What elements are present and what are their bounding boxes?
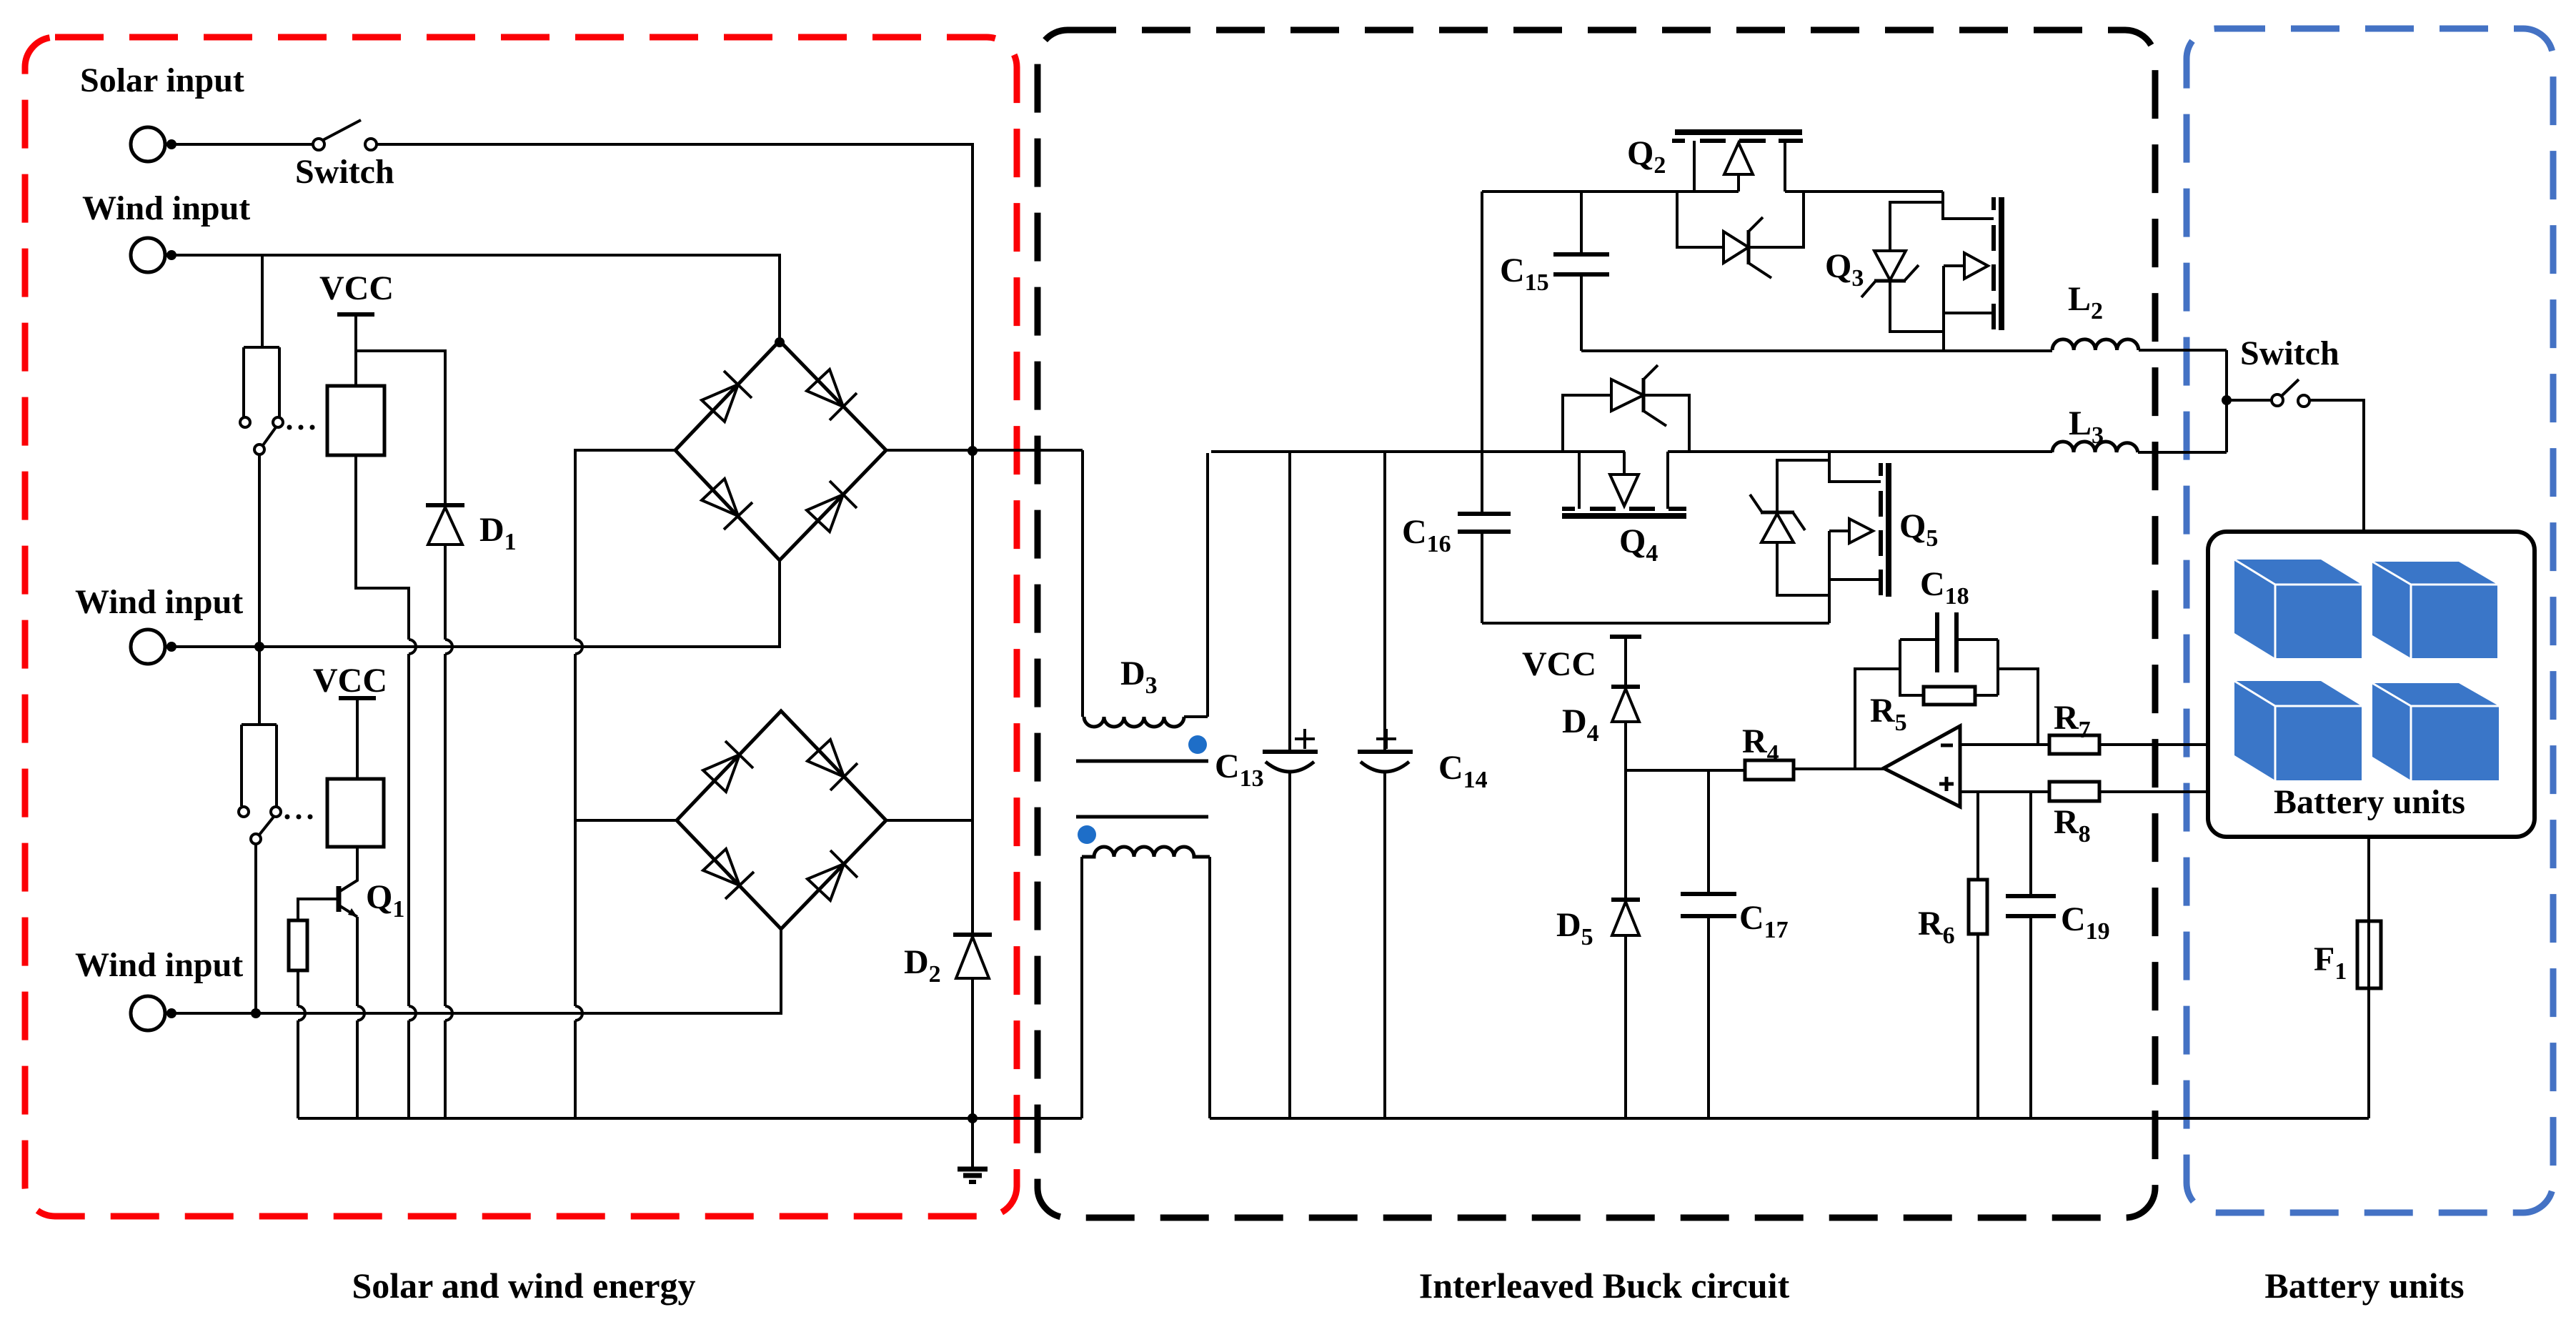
svg-text:Interleaved Buck circuit: Interleaved Buck circuit <box>1419 1266 1790 1306</box>
wire negative-rail branch to bridge2 left <box>575 819 677 822</box>
svg-text:Battery units: Battery units <box>2264 1266 2464 1306</box>
node: solar/bridge1 output junction <box>968 446 978 456</box>
resistor R5 <box>1900 640 1924 695</box>
section box: Interleaved Buck circuit (black dashed) <box>1038 30 2155 1218</box>
transformer core <box>1076 760 1208 763</box>
wire C15 bottom / Q3 source to L2 <box>1581 349 2052 352</box>
diode bridge 2 <box>677 711 886 929</box>
wire bridge1 left to negative rail (hops wind2, wind3) <box>575 450 675 1118</box>
battery cube 1 <box>2234 560 2362 658</box>
polarity dot (secondary) <box>1078 825 1096 844</box>
ground <box>971 1118 974 1168</box>
negative rail (left section) <box>298 1117 1082 1120</box>
section box: Solar and wind energy (red dashed) <box>25 37 1017 1216</box>
terminal: solar input <box>131 127 165 161</box>
polarity dot (primary) <box>1188 735 1207 754</box>
svg-text:Wind input: Wind input <box>82 189 250 227</box>
changeover switch K2 <box>242 723 277 726</box>
inductor L2 <box>2052 339 2139 350</box>
MOSFET Q3 <box>1943 192 1994 219</box>
capacitor C19 <box>2029 792 2032 896</box>
wire battery to fuse <box>2367 837 2370 921</box>
svg-text:Wind input: Wind input <box>75 583 243 621</box>
wire VCC branch to D1 <box>356 351 445 505</box>
changeover switch K1 <box>244 346 279 349</box>
resistor R6 <box>1976 792 1979 880</box>
wire riser to top bus / C16 drop <box>1481 192 1483 452</box>
zener (parallel Q5) <box>1777 460 1829 595</box>
wire L2/L3 join <box>2225 350 2228 452</box>
terminal: wind input 2 <box>131 630 165 664</box>
diode D5 <box>1624 770 1627 900</box>
bridge2 diode (B-R) <box>807 864 844 900</box>
wire bridge2 right output to D2 line <box>886 819 973 822</box>
positive mid rail (right of Q4) <box>1668 450 2052 453</box>
resistor R (Q1 base) <box>289 920 307 970</box>
negative rail (middle section) <box>1210 1117 2369 1120</box>
svg-text:Solar input: Solar input <box>80 61 244 99</box>
zener (parallel Q3) <box>1890 202 1944 332</box>
coupled inductor secondary <box>1080 857 1083 1118</box>
capacitor C18 <box>1900 638 1937 641</box>
positive mid rail (left of Q4) <box>1211 450 1625 453</box>
capacitor C15 <box>1580 192 1583 254</box>
wire C16 bottom to Q5 source <box>1482 622 1829 625</box>
node: wind3 junction <box>251 1008 261 1018</box>
MOSFET Q5 <box>1829 452 1881 482</box>
resistor R7 <box>2049 735 2099 754</box>
wire solar to switch <box>165 143 312 146</box>
battery cube 3 <box>2234 681 2362 780</box>
wire wind2 to bridge1 bottom <box>165 560 780 647</box>
MOSFET Q4 <box>1578 452 1581 509</box>
switch S2 (battery) <box>2227 399 2272 402</box>
wire wind2 node down to changeover 2 <box>258 647 261 725</box>
wire wind1 to bridge1 top <box>165 255 780 341</box>
svg-text:VCC: VCC <box>313 662 387 700</box>
op-amp U1 <box>1884 726 1960 807</box>
relay coil K2 <box>327 779 384 847</box>
top bus (right of Q2) <box>1785 190 1943 193</box>
bridge1 diode (L-B) <box>702 479 738 516</box>
wire wind3 to bridge2 bottom <box>165 929 781 1013</box>
svg-text:Solar and wind energy: Solar and wind energy <box>352 1266 695 1306</box>
terminal: wind input 1 <box>131 238 165 272</box>
bridge2 diode (L-T) <box>703 755 740 792</box>
wire op-amp minus input to R7 <box>1960 743 2049 746</box>
fuse F1 <box>2357 921 2381 988</box>
wire switch to right, down to mid node and D2 <box>377 144 973 935</box>
inductor L3 <box>2052 442 2138 452</box>
wire changeover1 to wind2 node <box>258 454 261 647</box>
battery cube 2 <box>2372 562 2497 658</box>
power VCC bar (control) <box>1610 635 1641 639</box>
bridge1 diode (B-R) <box>807 494 843 532</box>
wire relay1 to bottom rail (hops wind2, wind3) <box>356 455 409 1118</box>
coupled inductor primary (D3) <box>1081 450 1084 717</box>
transistor Q1 <box>340 847 357 891</box>
zener (parallel Q2) <box>1677 192 1804 247</box>
wire resistor to bottom rail (hop wind3) <box>297 970 299 1118</box>
bridge1 diode (L-T) <box>702 384 738 422</box>
battery cube 4 <box>2372 683 2499 780</box>
wire changeover2 to wind3 node <box>254 844 257 1013</box>
resistor R8 <box>2049 782 2099 801</box>
node: bridge1 top <box>775 337 785 347</box>
svg-text:Wind input: Wind input <box>75 946 243 984</box>
node: wind2 junction <box>254 642 264 652</box>
svg-text:Switch: Switch <box>295 153 394 191</box>
node: switch feed <box>2222 395 2232 405</box>
battery units box <box>2208 532 2535 837</box>
wire Q1 emitter to bottom rail (hop wind3) <box>356 917 359 1118</box>
diode bridge 1 <box>675 341 886 560</box>
wire branch to changeover switch 1 <box>261 255 264 347</box>
diode D2 <box>953 933 992 937</box>
power VCC bar (relay 2) <box>339 696 376 700</box>
diode D4 <box>1624 637 1627 687</box>
wire bridge1 right output <box>886 449 1083 452</box>
diode D1 <box>426 503 464 507</box>
top bus (left of Q2) <box>1482 190 1739 193</box>
section box: Battery units (blue dashed) <box>2187 29 2553 1213</box>
switch S1 (solar) <box>313 139 324 150</box>
capacitor C14 (electrolytic) <box>1383 452 1386 752</box>
capacitor C17 <box>1707 770 1710 894</box>
zener (parallel Q4) <box>1563 395 1689 452</box>
wire D1 to bottom rail (hops wind2, wind3) <box>444 545 447 1118</box>
MOSFET Q2 <box>1675 129 1802 135</box>
relay coil K1 <box>327 386 384 455</box>
terminal: wind input 3 <box>131 996 165 1030</box>
wire op-amp plus input to R8 <box>1960 790 2049 793</box>
bridge2 diode (L-B) <box>703 849 740 885</box>
feedback wires around op-amp <box>1855 669 1900 770</box>
resistor R4 <box>1745 760 1794 780</box>
capacitor C16 <box>1481 452 1483 514</box>
wire op-amp output to R4 <box>1794 767 1884 770</box>
svg-text:VCC: VCC <box>319 269 394 307</box>
bridge2 diode (T-R) <box>807 740 844 777</box>
bridge1 diode (T-R) <box>807 369 843 407</box>
svg-text:Battery units: Battery units <box>2274 783 2465 821</box>
capacitor C13 (electrolytic) <box>1288 452 1291 752</box>
svg-text:Switch: Switch <box>2240 334 2339 372</box>
svg-text:VCC: VCC <box>1522 645 1596 683</box>
power VCC bar (relay 1) <box>337 312 374 317</box>
node: ground junction <box>968 1113 978 1123</box>
